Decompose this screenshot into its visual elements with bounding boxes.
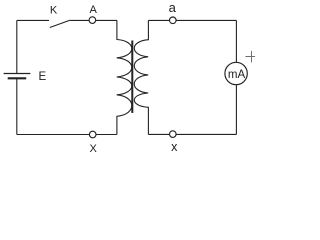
wire: top-right corner down to mA meter xyxy=(235,20,237,62)
terminal A xyxy=(89,17,96,24)
wire: bottom-right corner to terminal x xyxy=(176,133,236,135)
wire: left vertical upper (battery to top-left corner) xyxy=(16,20,18,73)
wire: terminal a to top-right corner xyxy=(176,19,236,21)
svg-text:x: x xyxy=(171,140,178,154)
svg-text:A: A xyxy=(90,4,98,16)
battery E short plate (thick) xyxy=(8,77,27,79)
wire: left loop bottom from corner to terminal X xyxy=(17,134,90,136)
svg-text:K: K xyxy=(50,4,58,16)
battery E long plate xyxy=(4,73,31,75)
terminal x xyxy=(170,131,177,138)
switch K lever xyxy=(50,20,70,27)
wire: terminal x to secondary bottom lead corner xyxy=(148,133,169,135)
transformer primary coil (4 humps, bulge right) xyxy=(117,20,132,134)
svg-text:mA: mA xyxy=(228,69,246,81)
milliammeter mA body xyxy=(225,62,247,84)
svg-text:X: X xyxy=(90,143,98,154)
svg-text:E: E xyxy=(38,71,46,83)
wire: terminal X to primary coil bottom lead xyxy=(96,134,117,136)
wire: switch right contact to terminal A xyxy=(70,19,89,21)
terminal X xyxy=(89,131,96,138)
terminal a xyxy=(170,17,177,24)
wire: terminal A to primary coil top lead xyxy=(96,19,117,21)
plus polarity mark xyxy=(246,51,256,63)
wire: secondary top lead corner to terminal a xyxy=(148,19,169,21)
wire: left vertical lower (battery to bottom-left corner) xyxy=(16,78,18,134)
svg-text:a: a xyxy=(169,0,177,15)
wire: left loop top from battery corner to switch xyxy=(17,19,49,21)
transformer core xyxy=(131,41,133,113)
wire: mA meter down to bottom-right corner xyxy=(235,85,237,135)
transformer secondary coil (4 humps, bulge left) xyxy=(134,20,148,134)
